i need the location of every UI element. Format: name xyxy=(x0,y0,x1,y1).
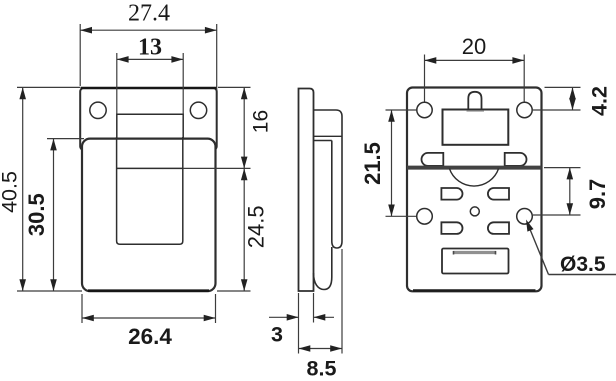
window crossbar (bend line) xyxy=(116,167,183,169)
arrow 16 bottom xyxy=(241,157,248,169)
back hole mid-right xyxy=(517,209,533,225)
leader underline xyxy=(549,274,616,276)
dim 24.5 line xyxy=(243,168,245,291)
arrow 40.5 top xyxy=(19,87,26,99)
arrow 16 top xyxy=(241,87,248,99)
dim 9.7 line xyxy=(569,168,571,215)
dim 3 extension left xyxy=(298,293,300,354)
arrow 20 right xyxy=(512,57,524,64)
back hole top-left xyxy=(417,102,432,117)
dim 13 extension line right xyxy=(182,53,184,114)
arrow 27.4 left xyxy=(80,27,92,34)
bottom rectangle inner lip xyxy=(453,251,496,254)
arrow 21.5 bottom xyxy=(388,205,395,217)
side plate strip xyxy=(299,89,314,292)
arrow 30.5 bottom xyxy=(50,279,57,291)
dim 8.5 line xyxy=(299,348,343,350)
arrow 27.4 right xyxy=(205,27,217,34)
dim 40.5 line xyxy=(22,87,24,291)
top tab arch xyxy=(468,92,481,110)
dim 16 extension top xyxy=(218,86,251,88)
main body (rounded rectangle) xyxy=(82,139,216,292)
latch loop slot (top bar with end ticks) xyxy=(117,114,183,138)
front plate (top keeper plate with screw holes) xyxy=(80,88,217,150)
slot row2 right xyxy=(488,222,509,234)
arrow 13 left xyxy=(117,56,129,63)
arrow 26.4 right xyxy=(204,315,216,322)
dim 4.2 extension bottom xyxy=(533,109,581,111)
divide line (thick) xyxy=(407,166,542,170)
dim 4.2 extension top xyxy=(545,86,581,88)
back window rectangle xyxy=(443,110,509,145)
arrow 24.5 top xyxy=(241,168,248,180)
screw hole right xyxy=(190,102,206,118)
slot above divide right (round outer end) xyxy=(505,153,527,166)
front plate top edge thick xyxy=(81,87,217,90)
arrow 30.5 top xyxy=(50,139,57,151)
dim 27.4 line xyxy=(80,29,217,31)
screw hole left xyxy=(90,102,106,118)
dim 16/24.5 extension middle xyxy=(183,167,251,169)
top tab shadow xyxy=(467,110,485,112)
leader line for hole diameter xyxy=(527,222,549,275)
dim 24.5 extension bottom xyxy=(217,290,251,292)
dim 16 line xyxy=(243,87,245,168)
dim 40.5/30.5 extension bottom xyxy=(17,290,82,292)
svg-text:40.5: 40.5 xyxy=(0,171,22,213)
dim 20 extension right xyxy=(523,55,525,102)
side spring leaf hook xyxy=(314,247,332,290)
slot row2 left xyxy=(441,222,462,234)
side latch lid outline with bottom hook xyxy=(314,110,343,248)
arrow 40.5 bottom xyxy=(19,279,26,291)
svg-text:24.5: 24.5 xyxy=(243,205,268,248)
arrow dim3 left (points right) xyxy=(287,314,299,321)
dim 26.4 extension right xyxy=(215,294,217,323)
svg-text:4.2: 4.2 xyxy=(588,86,612,116)
slot above divide left (round outer end) xyxy=(422,153,444,166)
arrow 9.7 bottom xyxy=(567,203,574,215)
svg-text:30.5: 30.5 xyxy=(24,193,49,236)
dim 26.4 extension left xyxy=(81,294,83,323)
dim 13 extension line left xyxy=(116,53,118,114)
bottom rectangle slot xyxy=(442,249,509,274)
dim 13 line xyxy=(117,58,183,60)
slot row1 left (round inner end) xyxy=(441,188,462,200)
dim 3 extension right xyxy=(313,293,315,323)
back hole top-right xyxy=(517,102,532,117)
arrow 21.5 top xyxy=(388,110,395,122)
side lid fold line upper xyxy=(314,135,343,137)
body bottom edge thick xyxy=(88,289,209,292)
dim 21.5 line xyxy=(391,110,393,216)
arrow 8.5 right xyxy=(330,345,342,352)
dim 40.5 extension top xyxy=(17,86,80,88)
svg-text:3: 3 xyxy=(271,323,283,347)
dim 20 line xyxy=(425,59,525,61)
dim 8.5 extension right xyxy=(341,249,343,354)
svg-text:13: 13 xyxy=(138,35,162,61)
arrow 8.5 left xyxy=(299,345,311,352)
dim 21.5 extension bottom xyxy=(386,215,417,217)
svg-text:21.5: 21.5 xyxy=(360,142,385,185)
bottom lip end ticks xyxy=(453,251,455,255)
dim 20 extension left xyxy=(424,55,426,102)
svg-text:8.5: 8.5 xyxy=(307,357,337,381)
dim 9.7 extension bottom xyxy=(533,214,581,216)
arrow 9.7 top xyxy=(567,168,574,180)
back outline bottom edge thick xyxy=(413,289,536,292)
dim 26.4 line xyxy=(82,317,216,319)
arrow 4.2 bottom xyxy=(569,98,576,110)
arrow leader (points to hole) xyxy=(523,218,534,231)
dim 9.7 extension top xyxy=(544,167,581,169)
dim 27.4 extension line right xyxy=(216,24,218,90)
center pivot hole xyxy=(470,207,479,216)
dim 21.5 extension top xyxy=(386,109,417,111)
slot row1 right (round inner end) xyxy=(488,188,509,200)
arrow 26.4 left xyxy=(82,315,94,322)
arrow 4.2 top xyxy=(569,87,576,99)
svg-text:16: 16 xyxy=(250,110,273,133)
dim 3 tail right xyxy=(314,316,335,318)
back outline xyxy=(407,88,542,292)
dim 30.5 extension top xyxy=(47,138,84,140)
svg-text:9.7: 9.7 xyxy=(585,179,610,210)
dim 30.5 line xyxy=(53,139,55,291)
back hole mid-left xyxy=(417,209,433,225)
arrow 24.5 bottom xyxy=(241,279,248,291)
dim 27.4 extension line left xyxy=(79,24,81,86)
svg-text:27.4: 27.4 xyxy=(128,1,170,27)
side lid fold line lower xyxy=(314,140,332,142)
arrow 20 left xyxy=(425,57,437,64)
svg-text:20: 20 xyxy=(462,34,486,59)
inner window (loop opening) xyxy=(117,137,183,244)
dim 3 tail left xyxy=(269,316,299,318)
spring dome arc xyxy=(449,169,498,187)
arrow dim3 right (points left) xyxy=(314,314,326,321)
svg-text:Ø3.5: Ø3.5 xyxy=(560,253,606,276)
svg-text:26.4: 26.4 xyxy=(128,324,172,349)
dim 4.2 line xyxy=(572,87,574,110)
arrow 13 right xyxy=(171,56,183,63)
